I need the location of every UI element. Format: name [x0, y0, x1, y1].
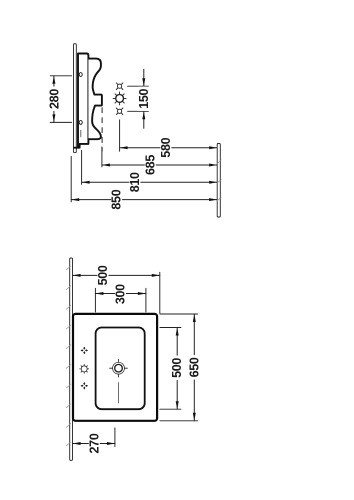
- 150 dim lines + arrows (outside): [143, 69, 145, 86]
- 270 right extension: [114, 428, 116, 447]
- svg-text:500: 500: [170, 358, 184, 378]
- 810 dim line: [82, 181, 218, 183]
- 270 dim: [73, 443, 115, 445]
- svg-text:150: 150: [137, 88, 151, 108]
- svg-text:850: 850: [110, 189, 124, 209]
- mounting hole 1 (top view): [79, 73, 82, 77]
- svg-text:300: 300: [114, 284, 128, 304]
- extension line for 685: [101, 147, 103, 167]
- wall hatch ticks: [66, 266, 71, 446]
- extension line from tap holes down (for 580): [119, 120, 121, 152]
- 580 dim line: [120, 147, 218, 149]
- centerline dash below hole 2: [80, 130, 82, 137]
- tap hole top (small): [116, 83, 123, 90]
- 500 top right extension: [159, 272, 161, 313]
- drain (plan): [110, 359, 128, 377]
- 850 dim line: [71, 199, 217, 201]
- wall bar (top view): [74, 44, 77, 153]
- 500 right dim: [176, 328, 178, 410]
- label 810: [129, 170, 140, 195]
- tap mark top (4 diamonds): [81, 347, 89, 355]
- apron profile (bump, S-curve, overflow tab, foot): [88, 59, 102, 140]
- svg-text:810: 810: [128, 172, 142, 192]
- svg-text:500: 500: [96, 265, 110, 285]
- tap mark bottom (4 diamonds): [81, 382, 89, 390]
- wall line (plan): [70, 258, 73, 460]
- tap hole bottom (small): [116, 108, 123, 115]
- label 150: [138, 87, 149, 112]
- bowl inner rectangle (plan): [96, 328, 145, 410]
- label 685: [145, 153, 156, 178]
- tap hole middle (large): [113, 92, 126, 105]
- 150 dim extension lines: [128, 85, 149, 87]
- basin outline (back, top rim, front line, bottom step): [74, 54, 88, 148]
- floor hatch ticks: [217, 160, 221, 164]
- 500 top dim: [73, 274, 160, 276]
- mounting hole 2 (top view): [79, 120, 82, 124]
- tap mark middle (circle with spokes): [80, 364, 89, 373]
- svg-text:650: 650: [187, 357, 201, 377]
- 685 dim line: [102, 164, 217, 166]
- label 280: [49, 87, 60, 112]
- 650 dim: [193, 314, 195, 421]
- 650 extension lines: [160, 313, 198, 315]
- dashed front face line: [101, 108, 103, 151]
- 500 right extension lines: [160, 327, 181, 329]
- svg-text:685: 685: [143, 155, 157, 175]
- drain centerline below: [118, 383, 120, 403]
- floor bar (top view right): [217, 144, 220, 218]
- basin outer rectangle (plan): [73, 314, 157, 421]
- label 500 (top, plan): [98, 263, 109, 288]
- label 850: [111, 187, 122, 212]
- label 300: [115, 282, 126, 307]
- label 500 (right, plan): [172, 356, 183, 381]
- 300 extension lines: [94, 288, 96, 312]
- extension line for 850: [70, 156, 72, 202]
- svg-text:280: 280: [47, 89, 61, 109]
- 280 dim line + arrows (inside): [53, 76, 55, 123]
- 280 dim extension lines: [50, 75, 71, 77]
- label 580: [160, 135, 171, 160]
- svg-text:270: 270: [87, 433, 101, 453]
- label 650: [189, 355, 200, 380]
- svg-text:580: 580: [159, 137, 173, 157]
- 300 dim: [95, 293, 145, 295]
- label 270: [89, 431, 100, 456]
- extension line for 810: [81, 150, 83, 184]
